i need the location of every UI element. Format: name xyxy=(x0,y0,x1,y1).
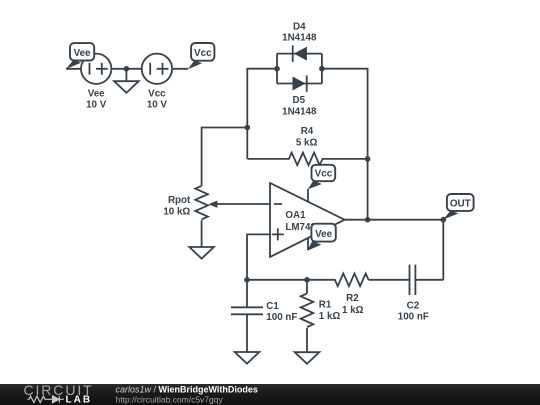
flag Vee at source xyxy=(66,43,94,69)
svg-text:10 V: 10 V xyxy=(86,100,107,111)
wire D4 row xyxy=(277,53,322,55)
label D4 xyxy=(282,21,317,43)
label Vcc source xyxy=(147,88,168,110)
flag Vee at op-amp xyxy=(307,224,336,251)
svg-text:Vcc: Vcc xyxy=(148,88,166,99)
wire rpot top xyxy=(202,128,248,186)
svg-text:Vee: Vee xyxy=(88,88,105,99)
node rpot top xyxy=(245,125,251,131)
svg-text:R2: R2 xyxy=(346,293,359,304)
logo diode icon xyxy=(48,396,64,403)
op-amp Vee power pin xyxy=(307,238,309,250)
wire plus input xyxy=(247,234,270,279)
svg-text:Vcc: Vcc xyxy=(315,168,333,179)
svg-text:C1: C1 xyxy=(266,301,279,312)
svg-text:Vee: Vee xyxy=(315,229,333,240)
svg-text:1N4148: 1N4148 xyxy=(282,33,317,44)
svg-text:Vcc: Vcc xyxy=(194,48,212,59)
svg-text:10 V: 10 V xyxy=(147,100,168,111)
node diode left xyxy=(274,66,280,72)
ground at R1 xyxy=(295,352,320,364)
svg-text:1 kΩ: 1 kΩ xyxy=(319,311,341,322)
diode D4 xyxy=(293,45,307,62)
label R4 xyxy=(296,126,318,148)
wiper arrow xyxy=(208,201,217,208)
svg-text:LAB: LAB xyxy=(66,395,93,405)
node R1 top xyxy=(304,277,310,283)
label Rpot xyxy=(163,195,191,217)
svg-text:5 kΩ: 5 kΩ xyxy=(296,137,318,148)
svg-text:OUT: OUT xyxy=(450,199,471,210)
potentiometer Rpot xyxy=(195,186,208,220)
op-amp OA1 xyxy=(270,183,345,257)
capacitor C2 xyxy=(410,265,416,295)
wire diode left node xyxy=(247,69,277,159)
svg-text:1N4148: 1N4148 xyxy=(282,107,317,118)
logo LAB xyxy=(66,395,93,405)
wire C2 to R2 xyxy=(369,279,410,281)
label C2 xyxy=(398,300,429,322)
wire OUT down xyxy=(442,220,444,280)
svg-text:carlos1w / WienBridgeWithDiode: carlos1w / WienBridgeWithDiodes xyxy=(116,385,258,395)
wire sources row xyxy=(66,68,188,70)
logo CIRCUIT xyxy=(24,382,94,398)
footer bar xyxy=(0,384,540,405)
label D5 xyxy=(282,95,317,117)
wire output row xyxy=(345,219,444,221)
node output rail xyxy=(365,217,371,223)
ground at C1 xyxy=(235,352,260,364)
wire diode bracket right xyxy=(321,54,323,84)
svg-text:100 nF: 100 nF xyxy=(266,312,297,323)
label R2 xyxy=(342,293,364,316)
flag Vcc at source xyxy=(188,43,215,69)
footer url xyxy=(116,395,224,405)
svg-text:Vee: Vee xyxy=(74,48,92,59)
wire wiper to op-amp minus input xyxy=(214,203,270,205)
svg-text:Rpot: Rpot xyxy=(168,195,191,206)
svg-text:100 nF: 100 nF xyxy=(398,311,429,322)
svg-text:R4: R4 xyxy=(301,126,314,137)
footer title xyxy=(116,385,258,395)
label Vee source xyxy=(86,88,107,110)
svg-text:1 kΩ: 1 kΩ xyxy=(342,305,364,316)
flag OUT xyxy=(443,194,473,220)
svg-text:http://circuitlab.com/c5v7gqy: http://circuitlab.com/c5v7gqy xyxy=(116,395,224,405)
ground at sources xyxy=(114,69,139,93)
diode D5 xyxy=(293,75,307,92)
op-amp minus sign xyxy=(274,203,282,205)
voltage source Vee xyxy=(81,54,111,84)
svg-text:10 kΩ: 10 kΩ xyxy=(163,206,190,217)
label C1 xyxy=(266,301,297,323)
flag Vcc at op-amp xyxy=(308,165,335,190)
resistor R4 xyxy=(247,153,367,166)
voltage source Vcc xyxy=(142,54,172,84)
svg-text:C2: C2 xyxy=(407,300,420,311)
resistor R1 xyxy=(301,294,314,328)
svg-text:R1: R1 xyxy=(319,299,332,310)
wire C1 top xyxy=(246,280,248,308)
wire D5 row xyxy=(277,83,322,85)
svg-text:D4: D4 xyxy=(293,21,306,32)
wire diode bracket left xyxy=(276,54,278,84)
node at sources xyxy=(124,66,130,72)
wire C1 bottom xyxy=(246,314,248,352)
capacitor C1 xyxy=(231,307,263,314)
wire R1 top xyxy=(306,280,308,294)
label R1 xyxy=(319,299,341,322)
node diode right xyxy=(319,66,325,72)
svg-text:D5: D5 xyxy=(293,95,306,106)
svg-text:OA1: OA1 xyxy=(285,210,306,221)
wire R1 bottom xyxy=(306,328,308,352)
wire rpot bottom xyxy=(201,220,203,247)
node C1 top xyxy=(244,277,250,283)
label OA1 xyxy=(285,210,316,233)
resistor R2 xyxy=(307,274,369,287)
node OUT xyxy=(441,217,447,223)
wire diode right to right rail xyxy=(322,69,368,220)
ground at rpot xyxy=(189,247,214,259)
op-amp plus sign xyxy=(272,228,284,240)
logo resistor icon xyxy=(28,396,49,402)
wire bottom row left xyxy=(247,279,307,281)
op-amp Vcc power pin xyxy=(307,189,309,202)
node R4 right xyxy=(365,156,371,162)
wire bottom row right xyxy=(415,279,443,281)
